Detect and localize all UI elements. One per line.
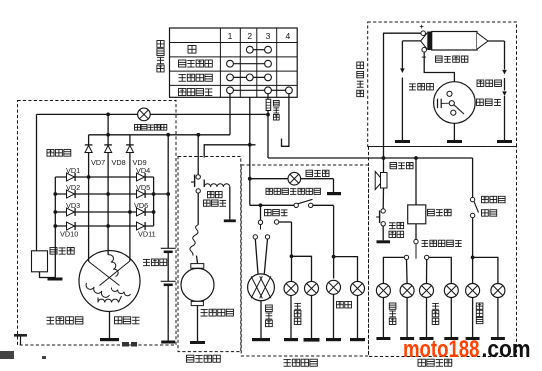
wire: start motor to ground — [197, 306, 199, 341]
wire: low beam lead — [264, 239, 267, 274]
svg-text:VD10: VD10 — [60, 230, 78, 239]
wire: horn button to ground — [382, 226, 384, 240]
svg-text:VD8: VD8 — [112, 158, 126, 167]
right turn front lamp — [420, 284, 434, 298]
switch position row start: contacts 1-3-4 — [227, 87, 293, 94]
diode VD4 — [137, 173, 146, 181]
ground: meter lamp — [327, 192, 341, 195]
svg-text:VD5: VD5 — [136, 183, 150, 192]
label VD3 — [66, 201, 80, 210]
switch position row day: contacts 1-3 — [227, 60, 272, 67]
wire: brake lamp 1 to ground — [472, 298, 474, 338]
wire: battery positive link — [154, 193, 169, 195]
wire: flasher feed — [415, 158, 417, 205]
diode VD8 — [104, 145, 112, 153]
start system boundary box — [178, 157, 241, 352]
wire: left turn front lamp to ground — [382, 298, 384, 338]
wire: switch terminal 2 down — [249, 97, 251, 205]
horn (speaker) — [375, 172, 387, 190]
wire: meter lamp to ground — [333, 179, 335, 192]
wire: left turn feed — [383, 257, 404, 283]
wire: right turn rear lamp to ground — [450, 298, 452, 338]
label: start relay line1 — [208, 192, 223, 198]
meter lamp — [288, 172, 301, 185]
label: flasher — [428, 209, 452, 215]
diode VD10 — [67, 222, 76, 230]
svg-text:.com: .com — [482, 336, 531, 363]
wire: rectifier top bus handled above — [0, 0, 1, 1]
svg-text:VD6: VD6 — [134, 201, 148, 210]
svg-text:VD11: VD11 — [138, 230, 156, 239]
wire: headlamp to ground — [260, 301, 262, 338]
svg-text:1: 1 — [228, 31, 233, 41]
junction: phase2 on main bus — [106, 133, 110, 137]
label: start motor — [201, 309, 234, 316]
label: left spark plug — [409, 84, 433, 90]
left turn front lamp — [376, 284, 390, 298]
wire: charge indicator feed — [37, 113, 269, 115]
wire: high beam lead — [255, 239, 258, 274]
wire: tail lamp feed — [333, 205, 335, 278]
spark plug (right) with HT lead — [488, 41, 507, 140]
wire: tail lamp bus right — [334, 257, 358, 282]
wire: coil - to distributor — [424, 52, 454, 82]
junction: phase1-row1 — [87, 175, 91, 179]
label: ignition coil — [436, 56, 468, 62]
label: ignition system (vertical) — [357, 62, 364, 97]
night driving light switch — [250, 199, 334, 207]
diode VD2 — [67, 190, 76, 198]
lighting system boundary box — [241, 165, 368, 356]
ground: right turn rear lamp — [444, 337, 458, 340]
ground: small lamp 2 — [304, 338, 320, 342]
label: light switch — [265, 210, 288, 216]
label: brake light line2 — [482, 210, 497, 216]
tail lamp 1 — [327, 280, 341, 294]
svg-text:VD7: VD7 — [91, 158, 105, 167]
label: start relay line2 — [204, 200, 227, 206]
label: generator — [115, 317, 140, 324]
svg-text:+: + — [420, 22, 425, 31]
label VD9 — [133, 158, 147, 167]
horn button — [376, 209, 385, 226]
label: brake light line1 — [482, 196, 506, 202]
wire: phase 1 — [88, 135, 90, 262]
ground: tail lamp 1 — [326, 338, 341, 341]
wire: horn feed — [383, 158, 385, 172]
label VD8 — [112, 158, 126, 167]
headlamp — [248, 274, 275, 301]
diode VD1 — [67, 173, 76, 181]
start relay KA — [191, 175, 230, 220]
wire: switch terminal 1 down — [229, 94, 231, 135]
label: charge indicator lamp — [135, 125, 167, 131]
wire: relay contact feed — [197, 135, 199, 175]
wire: switch terminal 3 down through fuse — [267, 94, 269, 158]
ground: brake lamp 1 — [466, 337, 480, 340]
junction: tail lamp bus — [332, 255, 336, 259]
regulator box — [32, 251, 48, 272]
watermark moto188.com — [403, 336, 531, 363]
label: front small lamp (vertical) — [294, 303, 301, 324]
wire: distributor to ground — [453, 123, 455, 140]
label: regulator — [50, 248, 74, 255]
power system boundary box — [18, 101, 177, 346]
label VD7 — [91, 158, 105, 167]
wire: phase 2 — [107, 114, 109, 255]
brake lamp 2 — [491, 284, 505, 298]
label: headlamp (vertical) — [266, 305, 273, 327]
label: + terminal — [420, 22, 425, 31]
label VD1 — [66, 166, 80, 175]
wire: brake switch feed — [472, 158, 474, 197]
wire: horn to button — [382, 188, 384, 209]
ground: start motor — [190, 341, 205, 344]
front small lamp 1 — [284, 281, 298, 295]
battery GB — [161, 135, 176, 341]
ground: left turn front lamp — [376, 337, 390, 340]
junction: battery link — [166, 192, 170, 196]
junction: coil feed on bus — [382, 156, 386, 160]
signal system boundary box — [369, 147, 517, 357]
junction: start relay tap on main bus — [197, 133, 201, 137]
junction: battery tap on main bus — [166, 133, 170, 137]
wire: right turn front lamp to ground — [426, 298, 428, 338]
label: horn button line1 — [389, 222, 404, 228]
diode VD11 — [137, 222, 146, 230]
wire: main bus — [89, 134, 230, 136]
junction: small lamp bus — [290, 254, 294, 258]
switch position row night: contacts 1-2-3 — [227, 74, 272, 81]
diode VD9 — [126, 145, 134, 153]
wire: start relay coil feed — [204, 145, 255, 187]
label: night driving light switch — [266, 188, 320, 194]
wire: brake lamp 2 to ground — [497, 298, 499, 338]
junction: left bus row4 — [53, 224, 57, 228]
label VD11 — [138, 230, 156, 239]
start motor M — [181, 264, 214, 306]
ignition coil T — [421, 31, 488, 52]
wire: coil + feed — [384, 33, 422, 158]
wire: phase 3 — [129, 135, 131, 261]
junction: left bus row3 — [53, 210, 57, 214]
label: lighting system — [284, 359, 318, 366]
row label: OFF (guan) — [188, 46, 196, 54]
spark plug (left) — [400, 41, 421, 140]
junction: fuse to indicator wire — [266, 113, 270, 117]
label: fuse (vertical) — [273, 101, 279, 121]
wire: lighting-signal feed bus — [268, 157, 473, 159]
diode VD3 — [67, 208, 76, 216]
wire: relay to start motor (with choke) — [190, 193, 198, 264]
turn signal switch common — [414, 239, 418, 258]
ground: horn button — [377, 240, 391, 243]
brake light switch — [470, 197, 478, 217]
ground: right turn front lamp — [420, 337, 434, 340]
right turn rear lamp — [444, 284, 458, 298]
wire: right turn feed — [426, 260, 428, 284]
wire: left turn rear feed — [406, 260, 409, 284]
junction: phase2-row4 — [106, 224, 110, 228]
flasher unit — [408, 205, 426, 224]
ground: generator — [100, 338, 119, 341]
wire: brake lamp bus right — [473, 257, 498, 283]
label: turn lamp right (vertical) — [432, 303, 439, 324]
fuse F1 — [266, 99, 271, 110]
wire: rectifier right bus — [153, 177, 155, 226]
label: - terminal — [422, 52, 427, 62]
wire: rectifier VD3/VD6 row — [55, 211, 153, 213]
wire: small lamp2 to ground — [311, 295, 313, 338]
ground: left spark plug — [395, 140, 410, 143]
left turn rear lamp — [400, 284, 414, 298]
watermark remnants bottom-left — [0, 334, 137, 359]
label: tail lamp — [337, 302, 352, 308]
svg-text:moto188: moto188 — [403, 336, 480, 363]
wire: regulator feed — [36, 114, 38, 250]
label: battery — [143, 259, 167, 266]
wire: flasher to turn switch — [415, 224, 417, 240]
row label: night driving — [179, 74, 213, 81]
diode VD7 — [85, 145, 93, 153]
wire: small lamp1 to ground — [290, 295, 292, 338]
ignition switch table column headers 1 2 3 4 — [228, 31, 291, 41]
distributor — [434, 82, 476, 124]
junction: phase2-row2 — [106, 192, 110, 196]
label: brake lamp (vertical) — [476, 303, 483, 324]
wire: left turn rear lamp to ground — [406, 298, 408, 338]
svg-text:VD3: VD3 — [66, 201, 80, 210]
wire: rectifier VD2/VD5 row — [55, 193, 153, 195]
label: turn signal switch — [422, 240, 462, 246]
label: ignition switch (vertical) — [157, 41, 164, 72]
svg-text:4: 4 — [286, 31, 291, 41]
headlight switch — [253, 205, 291, 239]
charge indicator lamp — [138, 108, 151, 121]
ground: right spark plug — [497, 140, 512, 143]
wire: rectifier VD10/VD11 row — [55, 225, 153, 227]
ignition system boundary box — [368, 22, 517, 147]
wire: brake lamp feed — [472, 218, 474, 284]
label: power system — [47, 317, 83, 324]
front small lamp 2 — [305, 281, 319, 295]
turn signal switch contacts — [404, 255, 429, 259]
wire: switch terminal 4 down with jog — [282, 94, 289, 147]
wire: tail lamp2 to ground — [357, 295, 359, 338]
svg-text:3: 3 — [266, 31, 271, 41]
ground: distributor — [447, 140, 462, 143]
wire: small lamps feed — [291, 222, 293, 281]
junction: coil feed to terminal2 wire — [248, 143, 252, 147]
wire: rectifier left bus — [54, 177, 56, 278]
junction: left bus row2 — [53, 192, 57, 196]
ground: left turn rear lamp — [400, 337, 414, 340]
ground: relay coil — [224, 219, 236, 222]
svg-text:VD2: VD2 — [66, 183, 80, 192]
tail lamp 2 — [351, 281, 365, 295]
ground: small lamp 1 — [284, 338, 298, 341]
label VD10 — [60, 230, 78, 239]
label: right spark plug — [477, 80, 501, 86]
label VD6 — [134, 201, 148, 210]
wire: regulator to ground — [40, 272, 56, 278]
ignition switch table grid — [170, 28, 298, 97]
ground: headlamp — [252, 338, 270, 341]
label: distributor — [477, 99, 501, 105]
junction: right bus row2 — [152, 192, 156, 196]
label VD2 — [66, 183, 80, 192]
label: rectifier — [47, 150, 71, 157]
junction: phase3-row3 — [128, 210, 132, 214]
svg-text:VD4: VD4 — [136, 166, 150, 175]
wire: rectifier VD1/VD4 row — [55, 176, 153, 178]
ground: brake lamp 2 — [491, 337, 505, 340]
ground: battery — [161, 341, 175, 344]
label: horn button line2 — [389, 231, 404, 237]
label: horn — [390, 163, 413, 169]
junction: brake lamp bus — [471, 256, 475, 260]
generator G — [79, 251, 140, 312]
junction: headlight switch tap — [259, 203, 263, 207]
svg-text:2: 2 — [247, 31, 252, 41]
wire: generator to ground — [109, 312, 111, 339]
row label: start position — [179, 89, 213, 96]
switch position row OFF: contacts 2-3 — [246, 46, 271, 53]
label: meter lamp — [306, 170, 329, 176]
junction: feed to rectifier bus — [106, 113, 110, 117]
brake lamp 1 — [466, 284, 480, 298]
label VD4 — [136, 166, 150, 175]
wire: meter lamp branch — [250, 178, 334, 180]
diode VD5 — [137, 190, 146, 198]
svg-text:VD1: VD1 — [66, 166, 80, 175]
junction: right bus row3 — [152, 210, 156, 214]
label VD5 — [136, 183, 150, 192]
row label: daytime driving — [179, 60, 213, 67]
label: start system — [187, 355, 221, 362]
ground: rectifier negative — [48, 278, 63, 281]
ground: tail lamp 2 — [350, 338, 365, 341]
junction: meter lamp branch — [248, 177, 252, 181]
label: turn lamp left (vertical) — [389, 303, 396, 324]
wire: right turn rear feed — [429, 257, 451, 283]
diode VD6 — [137, 208, 146, 216]
junction: flasher feed on bus — [414, 156, 418, 160]
wire: small lamp bus right — [292, 256, 312, 281]
wire: tail lamp1 to ground — [333, 294, 335, 338]
label: signal system — [418, 359, 452, 366]
